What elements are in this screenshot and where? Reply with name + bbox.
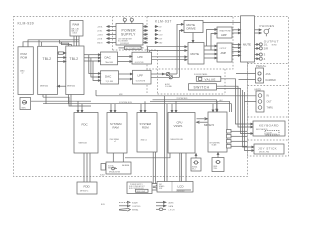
svg-text:(AC POWER SW): (AC POWER SW) xyxy=(126,47,141,50)
svg-text:CONTROL: CONTROL xyxy=(132,206,141,208)
system ROM U16 xyxy=(137,113,157,153)
svg-text:ROM: ROM xyxy=(142,125,149,129)
wire: cpu to panel boxes xyxy=(180,153,186,182)
svg-text:SCAN: SCAN xyxy=(212,144,217,147)
svg-text:FDC: FDC xyxy=(82,123,89,127)
svg-text:KLM-939: KLM-939 xyxy=(18,22,35,26)
wire: TBL2 bottoms to bus xyxy=(43,95,71,107)
mute U13 xyxy=(241,16,255,62)
front panel switch xyxy=(189,84,217,90)
svg-text:POWER SUPPLY: POWER SUPPLY xyxy=(130,184,144,186)
svg-text:DATA: DATA xyxy=(169,205,174,208)
wire: mute to output jacks xyxy=(255,44,259,60)
wire: bus to system ram xyxy=(110,104,116,113)
svg-text:[#OKUS]-W: [#OKUS]-W xyxy=(120,43,129,45)
wire: bus to system rom xyxy=(140,101,146,112)
wire: connectors to keyboard xyxy=(231,131,247,146)
svg-text:MB604235U-BB: MB604235U-BB xyxy=(171,139,184,141)
wire: TBL2 to TBL2 arrows xyxy=(57,52,65,62)
svg-text:SUB. LIGHT: SUB. LIGHT xyxy=(137,191,146,193)
wire: RAM local bus xyxy=(23,36,79,47)
svg-text:VALUE: VALUE xyxy=(205,78,216,82)
svg-text:4Mbit x2: 4Mbit x2 xyxy=(141,138,147,141)
svg-text:BDRL: BDRL xyxy=(214,166,218,168)
wire: mute drive control xyxy=(192,22,240,42)
svg-text:ROM: ROM xyxy=(21,55,28,59)
svg-text:RAM: RAM xyxy=(113,125,120,129)
DAC U6 xyxy=(101,71,119,84)
svg-text:+15V B: +15V B xyxy=(97,34,103,36)
svg-text:ADRS: ADRS xyxy=(169,201,175,204)
AC terminal 1 xyxy=(123,17,126,23)
svg-text:x2: x2 xyxy=(22,73,24,75)
svg-text:JOY STICK: JOY STICK xyxy=(258,146,277,150)
svg-text:TBL2: TBL2 xyxy=(43,57,52,61)
svg-text:LCD: LCD xyxy=(178,185,185,189)
svg-text:OUT: OUT xyxy=(267,101,273,104)
PCM ROM U2 xyxy=(18,47,33,95)
svg-text:SWITCH: SWITCH xyxy=(194,86,210,90)
svg-text:RAM: RAM xyxy=(73,23,80,27)
mute U11 xyxy=(188,43,204,65)
tone generator TBL2 U4 xyxy=(66,46,84,95)
text layer xyxy=(18,19,280,211)
system RAM U15 xyxy=(107,113,127,154)
rotary encoder box xyxy=(101,162,131,174)
wire: taps to DAC2 arrows xyxy=(89,55,101,82)
output jack J4 xyxy=(259,53,262,56)
front panel outline (dashed) xyxy=(158,69,226,94)
svg-text:MB87404: MB87404 xyxy=(67,86,75,88)
svg-text:SYSTEM BUS: SYSTEM BUS xyxy=(119,102,133,104)
svg-text:DUCYR: DUCYR xyxy=(108,166,114,168)
legend arrows xyxy=(119,201,166,211)
svg-text:PHONES: PHONES xyxy=(260,24,275,28)
wire: output amp to mute arrows xyxy=(232,44,241,57)
panel connector box xyxy=(152,184,158,191)
wire: bus to FDC xyxy=(77,101,83,112)
front panel value slider xyxy=(196,76,221,81)
wire: mute to output amp arrows xyxy=(204,45,217,59)
output jack J3 xyxy=(259,47,262,50)
svg-text:GL/CUTUB: GL/CUTUB xyxy=(135,62,144,64)
svg-text:AMP: AMP xyxy=(221,51,227,55)
power rows left of PSU xyxy=(107,26,116,44)
svg-text:IN: IN xyxy=(267,95,270,98)
svg-text:VOLUME: VOLUME xyxy=(165,86,172,88)
svg-text:KLM-938 PANEL: KLM-938 PANEL xyxy=(194,73,208,76)
wire: LPF1 outputs to MUTE xyxy=(152,56,188,61)
svg-text:2/R: 2/R xyxy=(264,47,269,51)
svg-text:TBL2: TBL2 xyxy=(70,57,79,61)
svg-text:VSSP1: VSSP1 xyxy=(174,124,183,128)
svg-text:MUTE: MUTE xyxy=(243,42,251,46)
power supply unit xyxy=(116,24,143,46)
svg-text:x2: x2 xyxy=(114,141,116,143)
svg-text:GL/CH/CHB: GL/CH/CHB xyxy=(136,80,146,82)
svg-text:(W/U.B L.P/B): (W/U.B L.P/B) xyxy=(259,152,269,154)
svg-text:DAC: DAC xyxy=(105,75,112,79)
svg-text:BUS CONTROLLER: BUS CONTROLLER xyxy=(129,188,144,190)
indicator box D1 xyxy=(191,154,201,172)
svg-text:-15V B: -15V B xyxy=(97,38,103,40)
indicator box D2 xyxy=(212,153,224,172)
wire: DAC1 to LPF1 arrows xyxy=(118,56,133,63)
svg-text:DAC: DAC xyxy=(105,56,112,60)
mute drive U9 xyxy=(184,21,203,33)
crystal oscillator X1 xyxy=(20,98,31,110)
connector CN2 xyxy=(227,135,232,139)
svg-text:DRIVE: DRIVE xyxy=(187,27,196,31)
svg-text:AMP: AMP xyxy=(221,33,227,37)
svg-text:6MHz: 6MHz xyxy=(22,107,26,109)
svg-text:SUPPLY: SUPPLY xyxy=(121,32,136,36)
power rows right of PSU xyxy=(143,26,158,44)
svg-text:MP32.5: MP32.5 xyxy=(204,123,214,127)
svg-text:OUTPUT: OUTPUT xyxy=(220,48,227,50)
wire: cpu serial link xyxy=(197,118,208,124)
svg-text:HEAD PHONE: HEAD PHONE xyxy=(220,30,232,33)
svg-text:MUTE: MUTE xyxy=(191,52,200,56)
svg-text:TQTr JBB: TQTr JBB xyxy=(106,80,114,83)
DAC U5 xyxy=(101,52,118,65)
svg-text:ASS.: ASS. xyxy=(266,73,272,76)
panel and LCD box xyxy=(157,182,193,193)
svg-text:DAMPER: DAMPER xyxy=(266,79,277,82)
joystick assembly xyxy=(254,144,284,154)
svg-text:MF355F-5: MF355F-5 xyxy=(80,191,88,193)
svg-text:SYSTEM BUS: SYSTEM BUS xyxy=(177,98,189,100)
headphone amp U10 xyxy=(217,27,232,38)
svg-text:+5V BL: +5V BL xyxy=(97,26,103,28)
RAM U1 xyxy=(70,21,83,37)
svg-text:MB87404: MB87404 xyxy=(40,86,48,88)
wire: bus to cpu xyxy=(171,101,177,112)
rear panel outline (dashed) xyxy=(248,17,289,157)
wire: taps to headphone amp xyxy=(207,29,218,50)
tone generator TBL2 U3 xyxy=(38,46,58,94)
svg-text:SLAVE: SLAVE xyxy=(132,201,138,204)
svg-text:TBDL: TBDL xyxy=(214,168,218,170)
svg-text:-5V BL: -5V BL xyxy=(97,30,102,32)
svg-text:MB89311B: MB89311B xyxy=(79,143,88,145)
wire: headphone amp to mute arrows xyxy=(232,29,241,34)
svg-text:MIDI: MIDI xyxy=(119,94,123,96)
board outline KLM-937 (dashed) xyxy=(147,17,233,95)
FDC U14 xyxy=(74,113,98,154)
system bus lines xyxy=(31,97,232,112)
wire: mute to phones jack xyxy=(255,29,262,34)
svg-text:KEYBOARD: KEYBOARD xyxy=(259,123,279,127)
wire: LPF2 outputs through volume to mute drive xyxy=(151,23,184,77)
FDD drive xyxy=(77,182,97,194)
svg-text:LPF: LPF xyxy=(138,55,144,59)
svg-text:KLM-9: KLM-9 xyxy=(100,175,105,177)
keyboard assembly xyxy=(253,121,285,136)
svg-text:PEDAL: PEDAL xyxy=(256,64,267,68)
connector CN3 xyxy=(227,140,232,144)
LPF U7 xyxy=(132,52,152,64)
svg-text:THRU: THRU xyxy=(267,107,274,110)
pedal jacks box xyxy=(256,68,264,83)
wire: serial line xyxy=(96,90,153,96)
output jack J2 xyxy=(259,43,262,46)
wire: DAC2 to LPF2 arrows xyxy=(119,73,133,80)
svg-text:GND B: GND B xyxy=(97,42,103,44)
phones jack J1 xyxy=(264,28,270,36)
svg-text:Wh-1: Wh-1 xyxy=(192,168,196,170)
wire: MIDI to cpu xyxy=(153,96,257,112)
output jack J5 xyxy=(259,57,262,60)
svg-text:KLM-937: KLM-937 xyxy=(155,19,172,23)
svg-text:MIDI: MIDI xyxy=(255,87,262,91)
svg-text:L.R CH: L.R CH xyxy=(169,209,176,211)
wire: pedal to panel xyxy=(236,74,256,80)
wire: bus to MP32 xyxy=(212,101,218,112)
wire: ram to encoder box xyxy=(113,153,170,162)
volume VR1 xyxy=(166,72,172,79)
svg-text:KEY: KEY xyxy=(159,184,162,186)
wire: LPF1 top outputs to MUTE xyxy=(148,46,188,52)
AC terminal 2 xyxy=(130,17,133,23)
svg-text:SERIAL: SERIAL xyxy=(132,208,138,211)
wire: TBL2 return arrow xyxy=(57,85,65,87)
wire: fdc to fdd xyxy=(84,153,90,182)
power supply sub board box xyxy=(127,182,152,194)
CPU U17 xyxy=(168,113,195,154)
MIDI jacks box xyxy=(256,91,264,112)
AC power switch row xyxy=(119,46,144,49)
LPF U8 xyxy=(133,70,152,84)
sub CPU MP32 U18 xyxy=(208,112,227,152)
connector CN1 xyxy=(227,130,232,134)
wire: TBL2 to DAC1 arrows xyxy=(84,54,101,62)
svg-text:MONO: MONO xyxy=(272,44,278,46)
output amp U12 xyxy=(217,43,232,62)
connector CN4 xyxy=(227,145,232,149)
wire: panel to keyboard harness xyxy=(217,79,255,152)
wire: open arrow to panel board xyxy=(153,185,158,188)
svg-text:TBbit DBB: TBbit DBB xyxy=(105,61,114,64)
svg-text:FDD: FDD xyxy=(84,185,91,189)
board outline KLM-939 (dashed) xyxy=(14,17,248,177)
svg-text:LPF: LPF xyxy=(138,74,144,78)
svg-text:ENSOR UP: ENSOR UP xyxy=(108,168,116,170)
wire: panel harness verticals xyxy=(165,96,168,182)
wire: system rom to panel connector xyxy=(153,152,155,184)
